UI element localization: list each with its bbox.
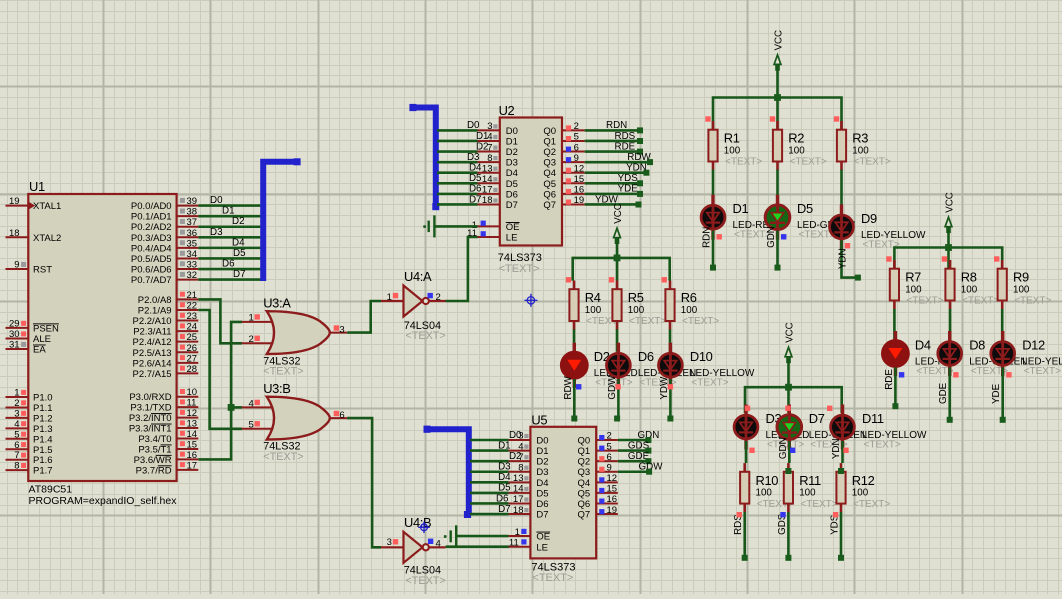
svg-text:30: 30 [9, 329, 20, 340]
wire bus to U5 D7 [470, 513, 509, 516]
svg-text:9: 9 [574, 153, 579, 164]
svg-text:Q4: Q4 [543, 168, 556, 179]
wire bus to U2 D3 [437, 161, 478, 164]
svg-text:33: 33 [187, 260, 198, 271]
svg-text:<TEXT>: <TEXT> [800, 499, 837, 510]
wire bus to U5 D1 [470, 449, 509, 452]
U2 pin 4 D1 [476, 131, 518, 148]
svg-text:D8: D8 [969, 338, 985, 353]
U5 pin 6 Q2 / net GDE [578, 451, 652, 468]
LED D3 LED-RED [734, 405, 809, 451]
svg-text:7: 7 [518, 452, 523, 463]
svg-text:D4: D4 [915, 338, 931, 353]
svg-text:R12: R12 [852, 473, 875, 488]
svg-text:23: 23 [187, 311, 198, 322]
svg-text:100: 100 [852, 488, 869, 499]
svg-text:ALE: ALE [33, 334, 51, 345]
svg-text:19: 19 [9, 196, 20, 207]
svg-text:Q3: Q3 [543, 158, 556, 169]
or-gate U3:B 74LS32 [242, 381, 347, 463]
svg-text:1: 1 [387, 292, 392, 303]
svg-text:D7: D7 [506, 200, 518, 211]
U1 pin 10 P3.0/RXD [129, 387, 198, 403]
U2 pin 5 Q1 / net RDS [543, 131, 643, 148]
resistor R2 100 [773, 121, 827, 170]
LED D4 LED-RED [882, 331, 959, 377]
svg-text:<TEXT>: <TEXT> [682, 316, 719, 327]
svg-text:U5: U5 [531, 412, 547, 427]
LED D6 LED-GREEN [607, 343, 697, 389]
U1 pin 16 P3.6/WR [134, 450, 199, 466]
wire D5 cathode to end / net GDN [766, 226, 786, 270]
U1 pin 28 P2.7/A15 [133, 364, 199, 380]
junction node VCC east [945, 244, 952, 251]
svg-text:P3.4/T0: P3.4/T0 [138, 434, 171, 445]
svg-text:RDN: RDN [606, 120, 627, 131]
svg-text:14: 14 [187, 429, 198, 440]
U2 pin 1 OE [472, 220, 520, 233]
svg-text:8: 8 [518, 462, 523, 473]
LED D7 LED-GREEN [777, 405, 867, 451]
svg-text:P0.7/AD7: P0.7/AD7 [131, 275, 172, 286]
chip U2 74LS373 [467, 103, 653, 275]
svg-text:R7: R7 [905, 270, 921, 285]
svg-text:P1.3: P1.3 [33, 424, 53, 435]
svg-text:D3: D3 [210, 227, 223, 238]
U1 pin 38 P0.1/AD1 [131, 207, 198, 223]
svg-text:<TEXT>: <TEXT> [263, 366, 303, 378]
svg-text:D6: D6 [536, 499, 548, 510]
svg-text:26: 26 [187, 343, 198, 354]
U5 value labels [531, 562, 575, 584]
svg-text:PROGRAM=expandIO_self.hex: PROGRAM=expandIO_self.hex [29, 495, 178, 507]
U2 pin 16 Q6 / net YDE [543, 184, 643, 201]
svg-text:P1.0: P1.0 [33, 393, 53, 404]
svg-text:<TEXT>: <TEXT> [725, 157, 762, 168]
svg-text:3: 3 [339, 325, 344, 336]
svg-text:Q1: Q1 [578, 446, 591, 457]
svg-text:YDE: YDE [991, 383, 1002, 404]
svg-text:<TEXT>: <TEXT> [906, 296, 943, 307]
svg-text:YDN: YDN [838, 248, 849, 269]
svg-text:R3: R3 [852, 131, 868, 146]
svg-text:16: 16 [574, 185, 585, 196]
svg-text:R8: R8 [961, 270, 977, 285]
svg-text:21: 21 [187, 290, 198, 301]
wire D11 cathode to R12 / net YDN [827, 406, 849, 463]
bus BUS2 into U2 [409, 104, 439, 210]
svg-text:100: 100 [585, 305, 602, 316]
svg-text:2: 2 [436, 292, 441, 303]
wire D8 cathode to end / net GDE [938, 367, 958, 423]
svg-text:P0.0/AD0: P0.0/AD0 [131, 201, 172, 212]
wire R12 to end / net YDS [830, 468, 845, 561]
svg-text:D9: D9 [861, 211, 877, 226]
svg-text:100: 100 [756, 488, 773, 499]
svg-text:18: 18 [482, 195, 493, 206]
svg-text:RDE: RDE [615, 141, 636, 152]
wire D1 from U1 P0.1 to bus [198, 206, 261, 217]
svg-text:2: 2 [607, 431, 612, 442]
svg-text:R5: R5 [628, 290, 644, 305]
LED D1 LED-RED [701, 195, 776, 241]
U5 pin 16 Q6 [578, 494, 618, 510]
svg-text:13: 13 [482, 163, 493, 174]
svg-text:31: 31 [9, 340, 20, 351]
wire R11 to end / net GDS [777, 468, 792, 561]
svg-text:P2.6/A14: P2.6/A14 [133, 358, 172, 369]
svg-text:6: 6 [574, 142, 579, 153]
U2 pin 18 D7 [469, 194, 518, 211]
U5 pin 7 D2 [509, 451, 549, 468]
wire bus to U2 D0 [437, 129, 478, 132]
resistor R5 100 [612, 281, 666, 330]
U3:B pin labels [249, 398, 345, 430]
svg-text:RDN: RDN [702, 227, 713, 248]
U1 pin 21 P2.0/A8 [138, 290, 199, 306]
svg-text:D3: D3 [536, 467, 548, 478]
svg-text:100: 100 [799, 488, 816, 499]
LED D8 LED-GREEN [938, 331, 1028, 377]
resistor R6 100 [665, 281, 719, 330]
svg-text:D1: D1 [222, 206, 235, 217]
wire D3 cathode to R10 [745, 406, 755, 463]
svg-text:U4:A: U4:A [404, 269, 432, 284]
U1 pin 13 P3.3/INT1 [129, 419, 198, 435]
svg-text:<TEXT>: <TEXT> [1014, 296, 1051, 307]
svg-text:5: 5 [14, 429, 19, 440]
bus BUS3 into U5 [424, 426, 472, 518]
resistor R8 100 [945, 260, 999, 309]
svg-text:Q1: Q1 [543, 136, 556, 147]
U1 pin 30 ALE [6, 329, 51, 345]
svg-text:12: 12 [574, 163, 585, 174]
svg-text:P0.4/AD4: P0.4/AD4 [131, 243, 172, 254]
svg-text:D0: D0 [536, 436, 548, 447]
svg-text:5: 5 [249, 419, 254, 430]
U2 pin 6 Q2 / net RDE [543, 141, 643, 158]
svg-text:D7: D7 [536, 510, 548, 521]
svg-text:Q0: Q0 [543, 126, 556, 137]
svg-text:U3:B: U3:B [263, 381, 290, 396]
wire D4 cathode to end / net RDE [884, 367, 904, 409]
U1 pin 15 P3.5/T1 [138, 439, 198, 455]
svg-text:25: 25 [187, 332, 198, 343]
U2 pin 8 D3 [467, 152, 518, 169]
U1 pin 11 P3.1/TXD [130, 398, 198, 414]
svg-text:R4: R4 [585, 290, 601, 305]
svg-text:Q3: Q3 [578, 467, 591, 478]
power VCC (south group) [784, 322, 795, 363]
U5 pin 17 D6 [496, 493, 549, 510]
U1 pin 4 P1.3 [6, 419, 53, 435]
U5 pin 3 D0 [509, 430, 549, 447]
svg-text:3: 3 [387, 537, 392, 548]
power VCC (east group) [944, 192, 955, 233]
wire R1 to D1 / net RDN [705, 116, 713, 204]
svg-text:9: 9 [14, 260, 19, 271]
svg-text:14: 14 [482, 174, 493, 185]
U1 pin 37 P0.2/AD2 [131, 217, 198, 233]
resistor R1 100 [708, 121, 762, 170]
resistor R9 100 [998, 260, 1052, 309]
U1 pin 31 EA [6, 340, 47, 356]
wire D7 from U1 P0.7 to bus [198, 269, 261, 280]
wire P2.1/A9 to U3:B input 5 [198, 310, 242, 429]
U1 pin 23 P2.2/A10 [133, 311, 199, 327]
svg-text:<TEXT>: <TEXT> [406, 575, 446, 587]
svg-text:16: 16 [187, 450, 198, 461]
wire U4:A output 2 to U2 LE pin 11 [446, 237, 478, 301]
svg-text:<TEXT>: <TEXT> [629, 316, 666, 327]
svg-text:VCC: VCC [773, 30, 784, 50]
U1 pin 26 P2.5/A13 [133, 343, 199, 359]
svg-text:D5: D5 [233, 248, 246, 259]
wire R8 to D8 [942, 256, 950, 340]
svg-text:34: 34 [187, 249, 198, 260]
svg-text:1: 1 [515, 527, 520, 538]
wire bus to U5 D6 [470, 502, 509, 505]
wire bus to U2 D2 [437, 150, 478, 153]
resistor R11 100 [784, 463, 838, 512]
LED D9 LED-YELLOW [830, 204, 926, 250]
wire U4:B output 4 to U5 LE pin 11 [446, 545, 509, 548]
U1 pin 18 XTAL2 [6, 228, 62, 244]
svg-text:<TEXT>: <TEXT> [691, 378, 728, 389]
wire D6 cathode to end / net GDW [607, 375, 621, 422]
svg-text:1: 1 [14, 388, 19, 399]
wire U3:B output 6 to U4:B input 3 [347, 418, 381, 547]
svg-text:4: 4 [249, 398, 254, 409]
U5 pin 2 Q0 / net GDN [578, 430, 660, 447]
U1 pin 9 RST [6, 260, 53, 276]
wire bus to U2 D4 [437, 171, 478, 174]
svg-text:P3.7/RD: P3.7/RD [136, 465, 172, 476]
U5 pin 18 D7 [498, 504, 548, 521]
wire D9 cathode to end / net YDN [838, 240, 861, 280]
svg-text:100: 100 [905, 285, 922, 296]
wire VCC rail south [745, 357, 842, 414]
U1 pin 7 P1.6 [6, 450, 53, 466]
svg-text:P0.1/AD1: P0.1/AD1 [131, 212, 172, 223]
svg-text:2: 2 [14, 398, 19, 409]
svg-text:P2.3/A11: P2.3/A11 [133, 327, 171, 338]
power VCC (north group) [773, 30, 784, 71]
U1 pin 6 P1.5 [6, 440, 53, 456]
wire D7 cathode to R11 / net GDN [778, 406, 796, 463]
U1 pin 24 P2.3/A11 [133, 322, 198, 338]
svg-text:38: 38 [187, 207, 198, 218]
svg-text:D1: D1 [536, 446, 548, 457]
svg-text:D4: D4 [506, 168, 518, 179]
svg-text:100: 100 [724, 146, 741, 157]
svg-text:Q5: Q5 [543, 179, 556, 190]
svg-text:P3.5/T1: P3.5/T1 [138, 444, 171, 455]
svg-text:39: 39 [187, 196, 198, 207]
U2 pin 14 D5 [469, 173, 518, 190]
svg-text:P3.6/WR: P3.6/WR [134, 455, 172, 466]
U2 pin 13 D4 [469, 163, 518, 180]
svg-text:P3.1/TXD: P3.1/TXD [130, 403, 171, 414]
U4:A pin labels [387, 292, 441, 303]
U2 pin 19 Q7 / net YDW [543, 194, 641, 211]
svg-text:15: 15 [187, 439, 198, 450]
svg-text:6: 6 [14, 440, 19, 451]
wire bus to U2 D5 [437, 182, 478, 185]
svg-text:D5: D5 [506, 179, 518, 190]
wire P3.6/WR to U3:B input 4 and U3:A input 1 [198, 322, 242, 460]
U1 pin 25 P2.4/A12 [133, 332, 199, 348]
U1 pin 34 P0.5/AD5 [131, 249, 198, 265]
svg-text:<TEXT>: <TEXT> [853, 499, 890, 510]
svg-text:<TEXT>: <TEXT> [962, 296, 999, 307]
svg-text:17: 17 [482, 185, 493, 196]
inverter U4:A 74LS04 [381, 269, 446, 342]
wire D2 from U1 P0.2 to bus [198, 216, 261, 227]
svg-text:100: 100 [852, 146, 869, 157]
svg-text:Q2: Q2 [543, 147, 556, 158]
svg-text:P3.2/INT0: P3.2/INT0 [129, 413, 172, 424]
svg-text:4: 4 [14, 419, 19, 430]
svg-text:P1.4: P1.4 [33, 434, 53, 445]
svg-text:35: 35 [187, 238, 198, 249]
svg-text:100: 100 [1013, 285, 1030, 296]
svg-text:VCC: VCC [613, 203, 624, 223]
U1 pin 29 PSEN [6, 318, 60, 334]
wire R3 to D9 [834, 116, 842, 213]
svg-text:36: 36 [187, 228, 198, 239]
U5 pin 8 D3 [498, 462, 548, 479]
svg-text:OE: OE [536, 532, 550, 543]
svg-text:VCC: VCC [784, 322, 795, 342]
svg-text:9: 9 [607, 462, 612, 473]
U1 pin 1 P1.0 [6, 388, 53, 404]
svg-text:16: 16 [607, 494, 618, 505]
svg-text:D10: D10 [690, 349, 713, 364]
U2 pin 11 LE [467, 228, 517, 244]
wire bus to U5 D4 [470, 481, 509, 484]
wire D6 from U1 P0.6 to bus [198, 259, 261, 270]
wire VCC rail west [573, 239, 670, 280]
wire D2 cathode to end / net RDW [563, 375, 582, 421]
wire P2.0/A8 to U3:A input 2 [198, 299, 242, 343]
U1 pin 2 P1.1 [6, 398, 53, 414]
wire bus to U2 D1 [437, 140, 478, 143]
svg-text:D6: D6 [506, 189, 518, 200]
U5 pin 5 Q1 / net GDS [578, 440, 652, 457]
svg-text:<TEXT>: <TEXT> [864, 440, 901, 451]
svg-text:XTAL2: XTAL2 [33, 233, 61, 244]
svg-text:17: 17 [187, 460, 198, 471]
U1 pin 22 P2.1/A9 [138, 300, 199, 316]
svg-text:RDS: RDS [615, 131, 636, 142]
wire D5 from U1 P0.5 to bus [198, 248, 261, 259]
svg-text:Q5: Q5 [578, 488, 591, 499]
svg-text:YDE: YDE [618, 184, 639, 195]
resistor R7 100 [890, 260, 944, 309]
U5 pin 13 D4 [498, 472, 548, 489]
U5 pin 14 D5 [498, 483, 548, 500]
U2 value labels [498, 252, 542, 275]
svg-text:D7: D7 [233, 269, 246, 280]
svg-text:GDE: GDE [938, 382, 949, 404]
svg-text:D0: D0 [506, 126, 518, 137]
U1 pin 5 P1.4 [6, 429, 53, 445]
svg-text:LE: LE [536, 542, 548, 553]
U1 pin 27 P2.6/A14 [133, 353, 199, 369]
svg-text:R10: R10 [756, 473, 779, 488]
LED D10 LED-YELLOW [659, 343, 755, 389]
svg-text:R2: R2 [788, 131, 804, 146]
svg-text:15: 15 [574, 174, 585, 185]
svg-text:29: 29 [9, 318, 20, 329]
svg-text:Q0: Q0 [578, 436, 591, 447]
svg-text:4: 4 [436, 538, 441, 549]
svg-text:D5: D5 [536, 488, 548, 499]
svg-text:27: 27 [187, 353, 198, 364]
svg-text:3: 3 [518, 431, 523, 442]
U1 value labels [29, 484, 178, 507]
svg-text:P2.5/A13: P2.5/A13 [133, 348, 172, 359]
svg-text:D1: D1 [733, 201, 749, 216]
svg-text:P1.5: P1.5 [33, 445, 53, 456]
svg-text:2: 2 [574, 121, 579, 132]
U1 pin 32 P0.7/AD7 [131, 270, 198, 286]
svg-text:Q7: Q7 [543, 200, 556, 211]
svg-text:19: 19 [574, 195, 585, 206]
svg-text:<TEXT>: <TEXT> [1024, 366, 1061, 377]
wire D10 cathode to end / net YDW [659, 376, 674, 422]
svg-text:D4: D4 [536, 478, 548, 489]
inverter U4:B 74LS04 [381, 515, 446, 587]
svg-text:D1: D1 [506, 136, 518, 147]
or-gate U3:A 74LS32 [242, 296, 347, 378]
wire R5 to D6 [609, 277, 617, 352]
svg-text:P3.0/RXD: P3.0/RXD [129, 392, 171, 403]
svg-text:D7: D7 [809, 411, 825, 426]
svg-text:P2.1/A9: P2.1/A9 [138, 305, 172, 316]
U3:B value labels [263, 441, 303, 463]
svg-text:LE: LE [506, 233, 518, 244]
svg-text:Q7: Q7 [578, 510, 591, 521]
svg-text:100: 100 [961, 285, 978, 296]
U2 pin 2 Q0 / net RDN [543, 120, 643, 137]
svg-text:P0.2/AD2: P0.2/AD2 [131, 222, 172, 233]
power VCC (west group) [613, 203, 624, 244]
svg-text:100: 100 [788, 146, 805, 157]
U1 pin 12 P3.2/INT0 [129, 408, 198, 424]
svg-text:6: 6 [339, 410, 344, 421]
svg-text:U1: U1 [29, 179, 45, 194]
svg-text:RDE: RDE [884, 369, 895, 390]
wire R7 to D4 [886, 256, 894, 340]
svg-text:18: 18 [9, 228, 20, 239]
ground symbol at U2 OE [423, 215, 477, 237]
svg-text:3: 3 [14, 408, 19, 419]
svg-text:14: 14 [513, 484, 524, 495]
svg-text:5: 5 [607, 441, 612, 452]
svg-text:5: 5 [574, 132, 579, 143]
wire bus to U2 D7 [437, 203, 478, 206]
U3:A value labels [263, 355, 303, 377]
svg-text:D12: D12 [1022, 338, 1045, 353]
wire R4 to D2 [566, 277, 574, 352]
wire R2 to D5 [770, 116, 778, 204]
wire D0 from U1 P0.0 to bus [198, 195, 261, 206]
U5 pin 9 Q3 / net GDW [578, 462, 664, 479]
U4:B pin labels [387, 537, 441, 549]
svg-text:VCC: VCC [944, 192, 955, 212]
